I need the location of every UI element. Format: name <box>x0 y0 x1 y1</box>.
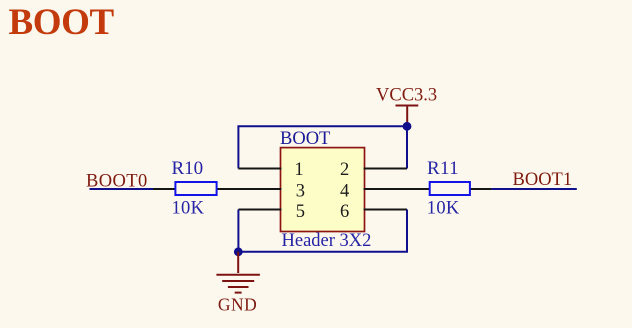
resistor R10 <box>153 158 239 219</box>
svg-text:3: 3 <box>296 181 305 201</box>
svg-text:GND: GND <box>218 294 257 314</box>
pin 4 <box>364 188 407 190</box>
svg-text:R10: R10 <box>172 158 204 179</box>
wire BOOT0 <box>90 188 154 190</box>
header U1 Header 3X2 <box>238 148 407 251</box>
pin 6 <box>364 209 407 211</box>
svg-text:R11: R11 <box>427 158 459 179</box>
svg-text:2: 2 <box>340 160 349 180</box>
pin 2 <box>364 168 407 170</box>
junction dot at GND <box>234 247 243 256</box>
svg-text:BOOT: BOOT <box>9 2 115 43</box>
svg-text:BOOT1: BOOT1 <box>513 170 573 190</box>
pin 5 <box>238 209 281 211</box>
wire bottom-left from pin5 down to GND junction <box>238 210 407 252</box>
svg-text:4: 4 <box>340 181 349 201</box>
pin 1 <box>238 168 281 170</box>
wire top-left from header pin1 up and across to VCC junction <box>238 126 407 168</box>
svg-text:10K: 10K <box>427 199 460 219</box>
svg-text:VCC3.3: VCC3.3 <box>376 86 437 106</box>
svg-text:6: 6 <box>340 202 349 222</box>
wire right vertical VCC junction down to pin2 row <box>406 126 408 168</box>
pin 3 <box>239 188 281 190</box>
svg-text:5: 5 <box>296 202 305 222</box>
wire BOOT1 <box>491 188 576 190</box>
svg-text:BOOT: BOOT <box>280 129 330 149</box>
resistor R11 <box>407 158 491 219</box>
svg-text:10K: 10K <box>172 199 205 219</box>
junction dot at VCC <box>403 122 412 131</box>
power port VCC3.3 <box>376 86 437 125</box>
svg-text:Header 3X2: Header 3X2 <box>282 231 372 251</box>
ground GND <box>216 252 260 314</box>
svg-text:1: 1 <box>294 160 303 180</box>
